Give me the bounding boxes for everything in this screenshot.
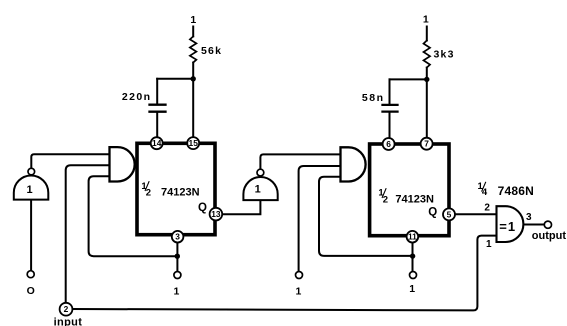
- svg-text:1: 1: [173, 285, 179, 297]
- svg-text:input: input: [54, 316, 83, 326]
- svg-text:1: 1: [486, 239, 492, 250]
- svg-text:2: 2: [484, 202, 490, 213]
- svg-text:1: 1: [409, 283, 415, 295]
- svg-text:13: 13: [211, 209, 221, 219]
- svg-text:7: 7: [424, 139, 429, 149]
- svg-text:74123N: 74123N: [395, 194, 434, 206]
- svg-text:1: 1: [190, 14, 196, 26]
- svg-text:3k3: 3k3: [434, 49, 455, 61]
- svg-text:2: 2: [146, 187, 151, 198]
- svg-text:58n: 58n: [362, 92, 385, 104]
- svg-text:2: 2: [383, 194, 388, 205]
- svg-text:Q: Q: [198, 202, 207, 214]
- svg-text:3: 3: [526, 212, 532, 223]
- svg-text:O: O: [27, 285, 35, 297]
- svg-text:56k: 56k: [201, 45, 222, 57]
- svg-text:7486N: 7486N: [498, 184, 534, 198]
- svg-text:14: 14: [152, 138, 162, 148]
- svg-text:1: 1: [255, 184, 261, 196]
- svg-text:11: 11: [408, 232, 417, 242]
- svg-text:5: 5: [447, 209, 452, 219]
- svg-text:2: 2: [64, 304, 69, 314]
- svg-text:15: 15: [189, 138, 199, 148]
- svg-text:3: 3: [175, 232, 180, 242]
- svg-text:1: 1: [27, 184, 33, 196]
- svg-text:1: 1: [423, 13, 429, 25]
- svg-text:6: 6: [386, 139, 391, 149]
- svg-text:1: 1: [295, 285, 301, 297]
- svg-text:220n: 220n: [122, 91, 152, 103]
- svg-text:Q: Q: [428, 207, 437, 219]
- svg-text:=1: =1: [499, 219, 516, 234]
- svg-text:74123N: 74123N: [161, 187, 200, 199]
- svg-text:output: output: [532, 230, 567, 242]
